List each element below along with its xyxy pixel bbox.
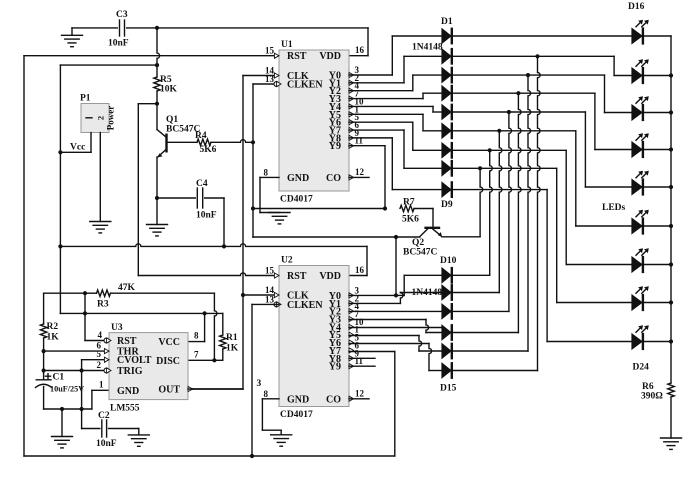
wire R3 top line from R2 bbox=[43, 293, 45, 324]
diode D6 1N4148 bbox=[441, 122, 451, 139]
svg-text:CD4017: CD4017 bbox=[280, 195, 313, 205]
ground (C1) bbox=[61, 409, 63, 437]
transistor Q2 BC547C bbox=[424, 227, 440, 229]
wire line3 to LED D18 bbox=[454, 74, 605, 76]
wire DISC pin7 bbox=[188, 359, 214, 361]
wire U2 Y0 to D10 bbox=[349, 294, 404, 296]
diode D13 1N4148 bbox=[441, 324, 451, 341]
LED D18 bbox=[631, 104, 643, 121]
svg-text:CVOLT: CVOLT bbox=[117, 355, 152, 366]
wire Q2 emitter to line8 bbox=[442, 236, 480, 238]
wire 555 OUT pin3 bbox=[188, 388, 193, 390]
wire line7 to LED D22 bbox=[454, 149, 567, 151]
wire U1 Y5 to D6 bbox=[349, 113, 423, 115]
wire C4 left bbox=[157, 197, 195, 199]
wire U2 Y1 to D11 bbox=[349, 302, 400, 304]
wire LED D22 cathode bbox=[643, 264, 671, 266]
diode D3 1N4148 bbox=[441, 67, 451, 84]
wire LED D21 cathode bbox=[643, 225, 671, 227]
svg-text:8: 8 bbox=[264, 389, 269, 399]
diode D9 1N4148 bbox=[441, 181, 451, 198]
wire R3 to DISC bbox=[111, 292, 215, 294]
svg-text:D24: D24 bbox=[633, 363, 650, 373]
LED D24 bbox=[631, 333, 643, 350]
svg-text:GND: GND bbox=[287, 173, 309, 184]
wire U1 Y6 to D7 bbox=[349, 121, 413, 123]
svg-text:Y9: Y9 bbox=[329, 362, 341, 373]
svg-text:10nF: 10nF bbox=[108, 39, 129, 49]
wire D10 cathode riser to line7 bbox=[454, 274, 490, 276]
wire U1 Y4 to D5 bbox=[349, 105, 433, 107]
ground (U2) bbox=[280, 430, 282, 435]
wire U1 Y2 to D3 bbox=[349, 90, 413, 92]
resistor R2 1K bbox=[40, 324, 46, 338]
wire Vcc rail x60 bbox=[59, 65, 61, 313]
wire RST(4) drop bbox=[84, 293, 86, 340]
diode D10 1N4148 bbox=[441, 267, 451, 284]
svg-text:5K6: 5K6 bbox=[200, 145, 217, 155]
wire U2 CLKEN to reset rail bbox=[252, 303, 279, 305]
wire C1 bottom to ground line bbox=[43, 387, 45, 410]
svg-text:Vcc: Vcc bbox=[70, 143, 85, 153]
svg-text:D10: D10 bbox=[440, 256, 457, 266]
connector P1 Power bbox=[81, 104, 109, 133]
wire U2 Y2 to D12 bbox=[349, 310, 441, 312]
svg-text:1N4148: 1N4148 bbox=[412, 43, 443, 53]
wire D14 cathode riser to line3 bbox=[454, 350, 529, 352]
wire LED D16 cathode bbox=[643, 35, 671, 37]
wire U2 Y4 feed bbox=[349, 327, 441, 329]
wire LED common cathode rail bbox=[670, 36, 672, 383]
svg-text:OUT: OUT bbox=[158, 385, 180, 396]
svg-text:8: 8 bbox=[264, 167, 269, 177]
wire CVOLT pin5 bbox=[82, 359, 109, 361]
svg-text:DISC: DISC bbox=[156, 356, 180, 367]
diode D1 1N4148 bbox=[441, 28, 451, 45]
svg-text:2: 2 bbox=[97, 360, 102, 370]
svg-text:7: 7 bbox=[194, 350, 199, 360]
diode D14 1N4148 bbox=[441, 343, 451, 360]
wire left rail x24 bbox=[23, 56, 25, 456]
IC U2 CD4017 decade counter bbox=[279, 266, 349, 407]
wire D11 cathode riser to line6 bbox=[454, 292, 500, 294]
wire C2 right to ground bbox=[109, 428, 139, 430]
svg-text:VCC: VCC bbox=[158, 337, 180, 348]
svg-text:R3: R3 bbox=[97, 300, 109, 310]
svg-text:C4: C4 bbox=[196, 179, 208, 189]
svg-text:1N4148: 1N4148 bbox=[412, 288, 443, 298]
svg-text:C3: C3 bbox=[116, 10, 128, 20]
wire U1 RST net from left rail bbox=[24, 55, 279, 57]
diode D7 1N4148 bbox=[441, 142, 451, 159]
wire top rail C3 to U1 VDD bbox=[127, 27, 368, 29]
wire U1 Y7 to D8 bbox=[349, 129, 404, 131]
wire Vcc to P1 pin1 bbox=[90, 133, 92, 153]
ground (P1) bbox=[90, 221, 111, 223]
wire top rail left of C3 bbox=[72, 27, 117, 29]
svg-text:Y9: Y9 bbox=[329, 141, 341, 152]
svg-text:4: 4 bbox=[98, 330, 103, 340]
svg-text:13: 13 bbox=[265, 294, 275, 304]
svg-text:16: 16 bbox=[355, 265, 365, 275]
wire U1 Y9 to CLKEN net bbox=[349, 145, 385, 147]
diode D4 1N4148 bbox=[441, 85, 451, 102]
ground (Q1 emitter) bbox=[147, 224, 168, 226]
svg-text:16: 16 bbox=[355, 45, 365, 55]
wire D13 cathode riser to line4 bbox=[454, 332, 519, 334]
wire U1 Y1 to D2 bbox=[349, 82, 404, 84]
ground (C2) bbox=[128, 434, 149, 436]
wire U1 Y9 drop bbox=[384, 146, 386, 209]
IC U3 LM555 timer bbox=[109, 333, 188, 400]
resistor R4 5K6 bbox=[197, 139, 211, 145]
svg-text:D15: D15 bbox=[440, 384, 457, 394]
wire clock vertical from 555 OUT bbox=[242, 76, 244, 390]
svg-text:D16: D16 bbox=[628, 2, 645, 12]
wire U2 Y7 to reset rail bbox=[349, 351, 395, 353]
wire line8 to LED D23 bbox=[454, 167, 557, 169]
diode D5 1N4148 bbox=[441, 104, 451, 121]
transistor Q1 BC547C bbox=[156, 104, 158, 130]
wire 555 ground line y409 bbox=[44, 408, 92, 410]
wire CVOLT decouple to C2 bbox=[81, 371, 83, 429]
wire D15 cathode riser to line2 bbox=[454, 370, 538, 372]
LED D23 bbox=[631, 294, 643, 311]
capacitor C4 10nF bbox=[196, 188, 198, 208]
svg-text:Power: Power bbox=[106, 106, 116, 131]
ground (LED return) bbox=[661, 437, 682, 439]
wire CLKEN net to Q2 collector and U2 Y0 bbox=[252, 236, 254, 238]
wire THR pin6 bbox=[44, 350, 109, 352]
svg-text:Q1: Q1 bbox=[166, 115, 178, 125]
svg-text:47K: 47K bbox=[118, 283, 136, 293]
wire U2 CO stub bbox=[349, 398, 369, 400]
wire D12 cathode riser to line5 bbox=[454, 310, 509, 312]
svg-text:LEDs: LEDs bbox=[602, 203, 626, 213]
wire Vcc to 555 VCC/RST rail bbox=[59, 312, 61, 314]
svg-text:LM555: LM555 bbox=[110, 404, 140, 414]
svg-text:390Ω: 390Ω bbox=[641, 392, 663, 402]
svg-text:R7: R7 bbox=[403, 198, 415, 208]
wire GND pin1 bbox=[91, 390, 93, 409]
svg-text:CLKEN: CLKEN bbox=[287, 300, 323, 311]
wire U1 CLKEN vertical net bbox=[253, 83, 279, 85]
svg-text:R2: R2 bbox=[47, 322, 59, 332]
wire line6 to LED D21 bbox=[454, 130, 576, 132]
wire Vcc branch y65 bbox=[60, 64, 157, 66]
svg-text:10nF: 10nF bbox=[196, 211, 217, 221]
wire VDD feeder y246 to U2 VDD bbox=[60, 244, 367, 247]
wire R4 to CLKEN net bbox=[211, 140, 253, 143]
diode D11 1N4148 bbox=[441, 284, 451, 301]
junction Q2 emitter on line8 bbox=[478, 166, 482, 170]
svg-text:VDD: VDD bbox=[319, 271, 341, 282]
svg-text:R5: R5 bbox=[160, 75, 172, 85]
svg-text:1K: 1K bbox=[226, 344, 239, 354]
LED D21 bbox=[631, 217, 643, 234]
LED D17 bbox=[631, 67, 643, 84]
LED D22 bbox=[631, 256, 643, 273]
capacitor C3 10nF bbox=[119, 20, 121, 36]
wire line9 to LED D24 bbox=[454, 189, 548, 191]
diode D8 1N4148 bbox=[441, 160, 451, 177]
svg-text:10nF: 10nF bbox=[96, 439, 117, 449]
wire LED D20 cathode bbox=[643, 186, 671, 188]
svg-text:12: 12 bbox=[355, 167, 365, 177]
wire R7 to Q2 base bbox=[414, 208, 433, 210]
resistor R1 1K bbox=[222, 313, 224, 335]
svg-text:CO: CO bbox=[326, 173, 341, 184]
svg-text:3: 3 bbox=[257, 379, 262, 389]
svg-text:D9: D9 bbox=[441, 200, 453, 210]
wire VCC pin8 riser bbox=[204, 313, 206, 341]
svg-text:10uF/25V: 10uF/25V bbox=[50, 385, 84, 394]
wire U2 Y3 to D13 bbox=[349, 319, 426, 321]
svg-text:10K: 10K bbox=[160, 85, 178, 95]
svg-text:Q2: Q2 bbox=[412, 238, 424, 248]
svg-text:1K: 1K bbox=[47, 333, 60, 343]
wire P1 pin2 to ground bbox=[99, 133, 101, 222]
svg-text:U3: U3 bbox=[111, 323, 123, 333]
svg-text:C2: C2 bbox=[98, 411, 110, 421]
svg-text:R1: R1 bbox=[226, 333, 238, 343]
capacitor C1 10uF/25V electrolytic bbox=[36, 379, 51, 381]
wire U1 CO stub bbox=[349, 176, 369, 178]
wire U2 Y9 stub bbox=[349, 365, 375, 367]
wire U2 Y5 to D14 bbox=[349, 335, 419, 337]
wire LED D18 cathode bbox=[643, 112, 671, 114]
svg-text:R6: R6 bbox=[642, 382, 654, 392]
wire TRIG pin2 bbox=[44, 370, 107, 372]
svg-text:C1: C1 bbox=[53, 373, 65, 383]
wire U2 Y6 to D15 bbox=[349, 343, 429, 345]
resistor R6 390 bbox=[668, 383, 674, 397]
svg-text:VDD: VDD bbox=[319, 51, 341, 62]
svg-text:1: 1 bbox=[99, 380, 104, 390]
LED D16 bbox=[631, 27, 643, 44]
wire line2 to LED D17 bbox=[454, 55, 615, 57]
wire U2 Y8 stub bbox=[349, 357, 375, 359]
wire bottom rail (reset net) bbox=[24, 455, 395, 457]
wire Q1 emitter to ground and C4 bbox=[156, 157, 158, 225]
wire Q1 base to R4 bbox=[168, 141, 198, 143]
diode D15 1N4148 bbox=[441, 362, 451, 379]
resistor R3 47K bbox=[97, 290, 111, 296]
wire U2 GND to ground bbox=[262, 398, 279, 400]
svg-text:BC547C: BC547C bbox=[403, 248, 437, 258]
ground (U1) bbox=[269, 212, 290, 214]
svg-text:15: 15 bbox=[265, 266, 275, 276]
svg-text:5: 5 bbox=[97, 349, 102, 359]
svg-text:8: 8 bbox=[194, 331, 199, 341]
svg-text:P1: P1 bbox=[80, 94, 91, 104]
svg-text:13: 13 bbox=[265, 74, 275, 84]
wire U1 GND to ground bbox=[260, 176, 279, 178]
resistor R5 10K bbox=[157, 28, 160, 65]
svg-text:12: 12 bbox=[355, 388, 365, 398]
wire LED D19 cathode bbox=[643, 149, 671, 151]
wire R5 bottom node to U2 RST bbox=[155, 102, 159, 106]
LED D19 bbox=[631, 141, 643, 158]
svg-text:CD4017: CD4017 bbox=[280, 410, 313, 420]
LED D20 bbox=[631, 178, 643, 195]
ground (C3 input ground) bbox=[71, 28, 73, 35]
wire LED D24 cathode bbox=[643, 341, 671, 343]
svg-text:2: 2 bbox=[96, 116, 106, 120]
wire U1 Y3 to D4 bbox=[349, 98, 423, 100]
svg-text:U2: U2 bbox=[281, 256, 293, 266]
svg-text:CO: CO bbox=[326, 394, 341, 405]
svg-text:GND: GND bbox=[117, 386, 139, 397]
diode D2 1N4148 bbox=[441, 48, 451, 65]
svg-text:RST: RST bbox=[287, 51, 307, 62]
wire U1 Y8 to D9 bbox=[349, 137, 392, 139]
wire line4 to LED D19 bbox=[454, 92, 595, 94]
wire line1 D1 to LED D16 bbox=[454, 35, 632, 37]
svg-text:U1: U1 bbox=[281, 40, 293, 50]
svg-text:CLKEN: CLKEN bbox=[287, 80, 323, 91]
diode D12 1N4148 bbox=[441, 303, 451, 320]
svg-text:RST: RST bbox=[287, 271, 307, 282]
svg-text:R4: R4 bbox=[195, 131, 207, 141]
wire CLKEN net to R7 bbox=[253, 208, 385, 210]
svg-text:GND: GND bbox=[287, 394, 309, 405]
svg-text:5K6: 5K6 bbox=[402, 215, 419, 225]
IC U1 CD4017 decade counter bbox=[279, 50, 349, 191]
wire LED D23 cathode bbox=[643, 302, 671, 304]
wire C4 right to VDD feeder bbox=[205, 197, 224, 199]
svg-text:15: 15 bbox=[265, 46, 275, 56]
wire line5 to LED D20 bbox=[454, 111, 586, 113]
svg-text:TRIG: TRIG bbox=[117, 366, 143, 377]
svg-text:RST: RST bbox=[117, 336, 137, 347]
capacitor C2 10nF bbox=[101, 420, 103, 437]
wire U1 Y0 to D1 bbox=[349, 74, 392, 76]
resistor R7 5K6 bbox=[400, 205, 414, 211]
wire LED D17 cathode bbox=[643, 75, 671, 77]
svg-text:D1: D1 bbox=[441, 17, 453, 27]
